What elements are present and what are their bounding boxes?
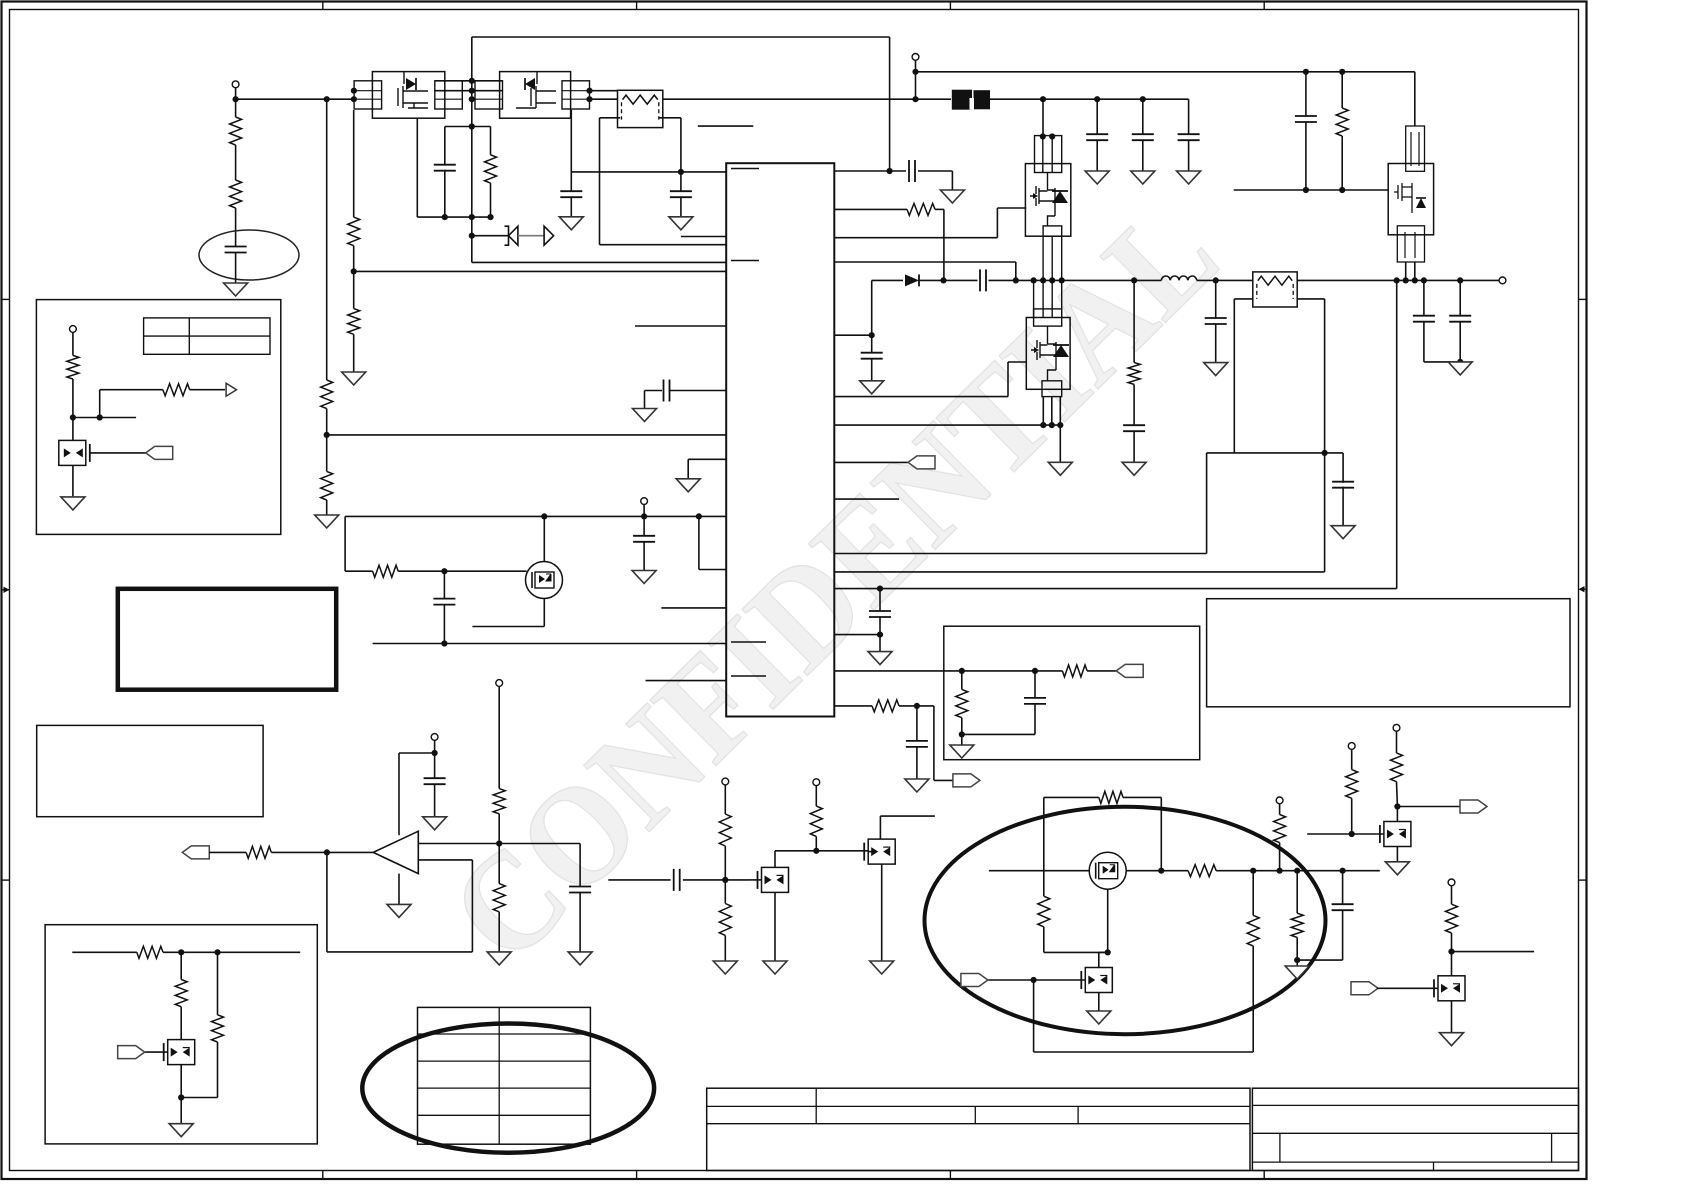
node <box>1294 868 1300 874</box>
node <box>696 513 702 519</box>
node <box>912 96 918 102</box>
node <box>351 268 357 274</box>
wire <box>1160 797 1162 870</box>
node <box>1403 277 1409 283</box>
wire <box>815 836 817 850</box>
resistor R6 <box>348 309 360 335</box>
wire <box>398 570 526 572</box>
Q1 internal mosfet+diode <box>398 72 428 108</box>
wire Q11 source <box>1098 993 1100 1012</box>
wire Q9 source <box>180 1065 182 1124</box>
wire VCC to U1 <box>571 171 726 173</box>
wire <box>1397 806 1460 808</box>
wire <box>326 409 328 472</box>
wire <box>644 391 646 409</box>
wire <box>209 851 246 853</box>
revision table <box>418 1007 591 1144</box>
wire <box>1099 951 1108 953</box>
wire <box>443 571 445 599</box>
U1 pin stub <box>731 168 759 170</box>
net connector <box>1351 982 1378 995</box>
wire <box>724 785 726 814</box>
inductor L1 <box>1161 276 1196 280</box>
node <box>1394 277 1400 283</box>
Q4b internal lead <box>1047 326 1049 344</box>
node <box>1013 277 1019 283</box>
transistor Q9 <box>168 1040 195 1065</box>
terminal VOUT <box>1499 277 1506 284</box>
node <box>940 277 946 283</box>
wire main rail right <box>989 98 1189 100</box>
wire <box>1096 99 1098 135</box>
wire <box>1451 886 1453 904</box>
wire <box>775 850 872 852</box>
terminal <box>70 326 77 333</box>
wire bus to U1 <box>373 643 727 645</box>
wire main N net <box>989 870 1089 872</box>
resistor R7 <box>485 155 497 183</box>
wire <box>1142 99 1144 135</box>
wire <box>434 740 436 753</box>
wire <box>749 879 762 881</box>
wire <box>934 779 953 781</box>
resistor R22 <box>810 806 822 836</box>
transistor Q12 <box>1384 822 1411 847</box>
ground <box>940 190 964 203</box>
Q5 internal <box>1394 183 1412 213</box>
ground <box>868 652 892 665</box>
wire <box>1252 871 1254 916</box>
wire <box>1044 796 1099 798</box>
node <box>912 69 918 75</box>
net connector <box>1116 664 1143 677</box>
node <box>877 632 883 638</box>
wire <box>943 209 945 280</box>
wire Q13 gate <box>1377 987 1438 989</box>
wire <box>659 117 681 119</box>
transistor Q8 <box>868 839 895 864</box>
U1 pin wire <box>688 458 726 460</box>
resistor R26 <box>1099 791 1123 803</box>
capacitor <box>1178 134 1200 140</box>
terminal <box>813 779 820 786</box>
ground <box>870 961 894 974</box>
ground <box>224 283 248 296</box>
ground <box>568 952 592 965</box>
Q2 internal mosfet+diode <box>516 72 556 108</box>
terminal <box>1348 743 1355 750</box>
wire <box>472 235 509 237</box>
ground <box>1131 171 1155 184</box>
node <box>1294 957 1300 963</box>
Q5 pins <box>1411 132 1419 166</box>
U1 pin wire <box>669 390 726 392</box>
node <box>1394 803 1400 809</box>
node <box>1349 831 1355 837</box>
capacitor C2 <box>434 165 456 171</box>
input terminal J1 <box>232 81 239 88</box>
wire <box>590 90 618 92</box>
wire <box>961 718 963 745</box>
wire <box>1423 321 1425 362</box>
node <box>442 214 448 220</box>
Q4 top pin block <box>1035 136 1062 173</box>
wire <box>472 626 544 628</box>
wire feedback loop <box>326 852 328 952</box>
wire <box>996 208 998 238</box>
node <box>432 750 438 756</box>
node <box>1105 949 1111 955</box>
wire <box>490 183 492 217</box>
terminal <box>722 778 729 785</box>
wire <box>180 1007 182 1040</box>
Q5 bottom pin block <box>1397 226 1424 262</box>
U1 pin wire <box>834 553 1206 555</box>
wire <box>1216 870 1380 872</box>
node <box>469 123 475 129</box>
Q5 pins <box>1405 232 1415 258</box>
wire <box>1459 321 1461 362</box>
wire <box>443 604 445 643</box>
sub-circuit box I <box>45 925 317 1144</box>
wire <box>1215 323 1217 362</box>
wire <box>235 99 237 117</box>
wire Q3 drain <box>543 516 545 561</box>
capacitor C15 <box>1295 116 1317 122</box>
capacitor C1 <box>225 247 247 253</box>
wire <box>345 570 373 572</box>
wire main input rail <box>236 98 355 100</box>
wire <box>1015 262 1017 280</box>
U1 pin wire <box>834 261 1016 263</box>
wire <box>518 235 544 237</box>
wire <box>868 851 872 853</box>
wire T2 right lead <box>1297 298 1324 300</box>
wire <box>1044 951 1108 953</box>
wire bus to U1 <box>600 244 727 246</box>
node <box>70 414 76 420</box>
capacitor C8 <box>909 160 915 182</box>
wire <box>1341 136 1343 190</box>
wire <box>1324 299 1326 572</box>
net connector <box>961 974 988 987</box>
wire <box>1034 1051 1254 1053</box>
wire <box>687 459 689 479</box>
capacitor C12 <box>1205 318 1227 324</box>
node <box>1412 277 1418 283</box>
title block right table <box>1252 1088 1578 1170</box>
wire switch node <box>872 279 903 281</box>
wire <box>498 814 500 884</box>
wire <box>1342 487 1344 526</box>
resistor R25 <box>212 1015 224 1042</box>
buffer marker <box>544 226 554 245</box>
ground <box>860 381 884 394</box>
wire <box>1405 262 1407 280</box>
node <box>887 168 893 174</box>
wire <box>471 860 473 952</box>
node <box>324 96 330 102</box>
transistor Q6 <box>59 440 86 465</box>
wire <box>434 784 436 817</box>
node <box>1339 187 1345 193</box>
wire <box>471 37 473 262</box>
wire <box>1188 99 1190 135</box>
wire <box>1296 937 1298 966</box>
wire T2 left lead <box>1234 298 1253 300</box>
ground <box>905 779 929 792</box>
wire <box>680 196 682 216</box>
transistor Q10 <box>1089 852 1126 889</box>
transistor Q5 package <box>1388 164 1433 235</box>
wire <box>1342 910 1344 960</box>
wire <box>962 733 1035 735</box>
wire rail A <box>326 99 328 380</box>
wire <box>871 335 873 353</box>
ground <box>1122 462 1146 475</box>
wire <box>916 746 918 779</box>
wire <box>1007 362 1009 397</box>
U1 pin wire <box>834 208 907 210</box>
wire U2 input net <box>418 843 580 845</box>
wire <box>680 118 682 172</box>
terminal VIN <box>912 54 919 61</box>
wire <box>916 706 918 742</box>
net connector <box>146 446 173 459</box>
wire Q1 source leg <box>416 118 418 217</box>
wire <box>815 786 817 807</box>
wire Q8 source <box>881 864 883 961</box>
node <box>541 513 547 519</box>
terminal <box>1393 724 1400 731</box>
U1 pin stub <box>731 675 766 677</box>
wire bus to U1 <box>472 261 726 263</box>
capacitor C3 <box>560 191 582 197</box>
wire <box>1087 670 1116 672</box>
transistor Q11 <box>1085 968 1112 993</box>
wire <box>217 1042 219 1098</box>
wire <box>399 752 435 754</box>
Q4 pin wire <box>1051 236 1053 280</box>
wire <box>72 379 74 444</box>
wire <box>915 60 917 99</box>
node <box>877 586 883 592</box>
wire <box>1252 946 1254 1052</box>
wire <box>899 705 934 707</box>
Q4 internal lead <box>1047 173 1049 191</box>
wire <box>1342 871 1344 905</box>
ground <box>169 1124 193 1137</box>
resistor R30 <box>1274 815 1286 843</box>
ground <box>1204 363 1228 376</box>
highlight ellipse around charge circuit <box>925 807 1326 1034</box>
wire Q6 gate <box>89 452 146 454</box>
ground <box>676 479 700 492</box>
wire <box>919 279 978 281</box>
U1 pin stub wire <box>646 680 727 682</box>
ground <box>632 571 656 584</box>
wire <box>434 753 436 779</box>
ground <box>387 904 411 917</box>
node <box>869 332 875 338</box>
U1 pin wire COMP <box>834 670 1062 672</box>
wire <box>398 753 400 835</box>
wire <box>916 98 952 100</box>
wire Q4b gate <box>1008 361 1026 363</box>
wire <box>1424 361 1460 363</box>
U1 pin stub wire <box>661 607 726 609</box>
U1 pin wire <box>834 571 1324 573</box>
resistor R8 <box>373 565 399 577</box>
Q4b internal mosfet+diode <box>1031 340 1056 370</box>
zener diode D2 <box>509 226 518 245</box>
resistor R29 <box>1247 915 1259 946</box>
Q4 pin wire <box>1042 236 1044 280</box>
wire VDD loop <box>345 515 726 517</box>
arrow marker <box>226 383 236 396</box>
wire <box>1034 671 1036 699</box>
capacitor <box>1449 316 1471 322</box>
wire <box>724 846 726 904</box>
wire <box>599 118 601 245</box>
resistor R34 <box>1446 904 1458 933</box>
terminal <box>431 734 438 741</box>
ground <box>342 372 366 385</box>
ground <box>423 817 447 830</box>
ground <box>315 515 339 528</box>
wire <box>1042 397 1044 426</box>
wire bus to U1 <box>327 434 727 436</box>
wire <box>699 569 726 571</box>
node <box>324 432 330 438</box>
U1 pin stub <box>731 260 759 262</box>
resistor R27 <box>1038 896 1050 927</box>
wire <box>879 616 881 651</box>
wire <box>72 465 74 497</box>
ground <box>1085 171 1109 184</box>
wire <box>1215 280 1217 318</box>
capacitor C21 <box>1332 904 1354 910</box>
wire Q12 drain <box>1396 807 1398 822</box>
wire <box>1059 397 1061 426</box>
wire <box>935 208 944 210</box>
resistor R21 <box>719 904 731 936</box>
node <box>959 731 965 737</box>
ground <box>559 217 583 230</box>
node <box>1032 668 1038 674</box>
node <box>914 703 920 709</box>
wire feedback <box>1207 452 1344 454</box>
node <box>496 840 502 846</box>
wire <box>398 874 400 905</box>
wire <box>190 389 225 391</box>
Q2 right pin block <box>562 81 590 109</box>
Q1 right pin block <box>435 81 463 109</box>
node <box>1421 277 1427 283</box>
wire <box>498 912 500 952</box>
ground <box>1285 966 1309 979</box>
wire top loop <box>472 36 890 38</box>
wire <box>99 390 101 418</box>
wire bus to U1 <box>354 270 727 272</box>
wire <box>680 172 682 192</box>
wire rail B <box>353 110 355 217</box>
transistor Q3 <box>526 562 563 599</box>
Q4 pin wire <box>1061 236 1063 280</box>
wire <box>271 851 373 853</box>
wire <box>72 332 74 355</box>
U1 pin wire <box>834 461 908 463</box>
wire <box>100 389 163 391</box>
transistor Q7 <box>762 867 789 892</box>
resistor R33 <box>1391 753 1403 782</box>
capacitor C20 <box>674 869 680 891</box>
wire <box>1279 843 1281 871</box>
wire <box>989 279 1162 281</box>
node <box>1158 868 1164 874</box>
wire <box>73 417 136 419</box>
node <box>1277 868 1283 874</box>
ground <box>487 952 511 965</box>
wire <box>724 935 726 961</box>
wire <box>235 145 237 180</box>
wire <box>643 541 645 570</box>
Q4b top pin block <box>1034 309 1062 326</box>
resistor R1 <box>230 117 242 145</box>
node <box>1140 96 1146 102</box>
node <box>722 877 728 883</box>
wire output rail <box>1297 279 1499 281</box>
net connector <box>118 1046 145 1059</box>
capacitor C13 <box>1332 482 1354 488</box>
terminal <box>496 680 503 687</box>
U1 pin wire sense <box>834 424 1060 426</box>
net connector <box>953 774 980 787</box>
node <box>1339 69 1345 75</box>
wire <box>180 952 182 979</box>
wire <box>72 951 137 953</box>
resistor R3 <box>321 380 333 409</box>
diode D3 <box>905 274 919 286</box>
Q4 bottom pin block <box>1043 226 1062 236</box>
wire <box>1342 453 1344 483</box>
wire <box>879 589 881 612</box>
node <box>178 949 184 955</box>
net connector <box>908 456 935 469</box>
U1 pin wire gate drive <box>834 237 997 239</box>
wire <box>1142 140 1144 171</box>
wire <box>1396 782 1399 807</box>
resistor R32 <box>1346 770 1358 799</box>
node <box>1040 96 1046 102</box>
wire <box>1133 280 1135 362</box>
wire Q9 gate <box>145 1051 168 1053</box>
wire <box>600 117 621 119</box>
wire <box>498 686 500 788</box>
node <box>1340 868 1346 874</box>
U1 pin wire FB <box>834 705 872 707</box>
wire <box>871 280 873 335</box>
op-amp U1 controller IC body <box>726 163 834 716</box>
ground <box>1048 462 1072 475</box>
wire <box>579 892 581 952</box>
node <box>641 513 647 519</box>
node <box>214 949 220 955</box>
wire <box>683 879 749 881</box>
wire <box>1126 870 1188 872</box>
wire to Q4 gate <box>997 207 1026 209</box>
ground <box>763 961 787 974</box>
